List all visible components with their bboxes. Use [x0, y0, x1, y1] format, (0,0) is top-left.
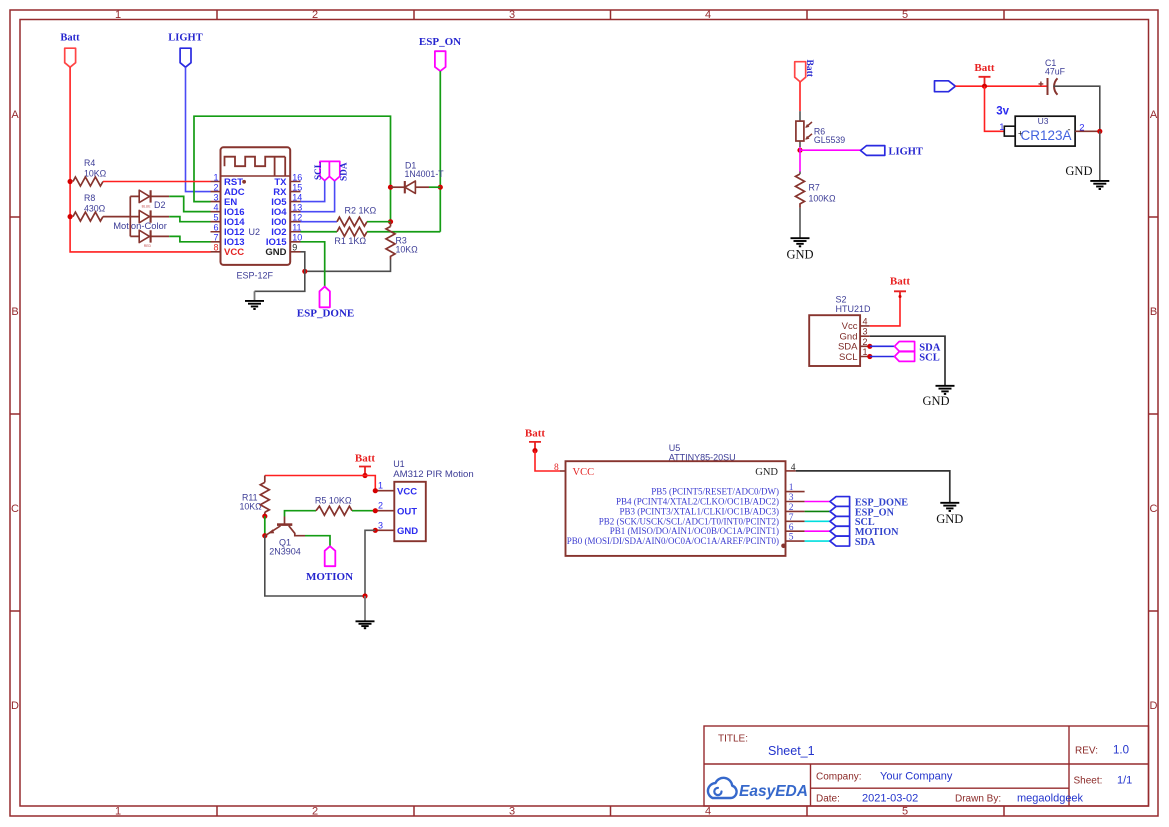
svg-text:VCC: VCC: [224, 247, 244, 258]
svg-text:PB4 (PCINT4/XTAL2/CLKO/OC1B/AD: PB4 (PCINT4/XTAL2/CLKO/OC1B/ADC2): [616, 497, 779, 507]
resistor R8: [73, 193, 106, 221]
svg-text:R7: R7: [809, 183, 820, 193]
svg-text:7: 7: [789, 513, 794, 523]
svg-text:VCC: VCC: [397, 487, 417, 498]
net flag Batt (T symbol at C1): [974, 62, 995, 86]
svg-text:6: 6: [213, 223, 218, 233]
wire D2 mid diode to IO14: [169, 217, 210, 222]
node junction VCC pin: [373, 488, 378, 493]
svg-text:PB5 (PCINT5/RESET/ADC0/DW): PB5 (PCINT5/RESET/ADC0/DW): [651, 487, 779, 497]
svg-text:PB1 (MISO/DO/AIN1/OC0B/OC1A/PC: PB1 (MISO/DO/AIN1/OC0B/OC1A/PCINT1): [610, 526, 779, 536]
svg-text:LIGHT: LIGHT: [168, 33, 202, 44]
svg-text:3: 3: [213, 192, 218, 202]
node junction R8 tap: [68, 214, 73, 219]
wire port to C1: [955, 85, 1047, 87]
wire U3 pin2 stub: [1075, 130, 1100, 132]
resistor R4: [73, 158, 107, 186]
wire D1 to ESP_ON net: [429, 186, 440, 188]
svg-text:BLUE: BLUE: [142, 204, 152, 208]
svg-text:5: 5: [213, 213, 218, 223]
wire R5 to OUT pin: [352, 510, 375, 512]
node junction D1 anode-left: [388, 185, 393, 190]
ground (HTU21D): [922, 386, 954, 408]
sensor U1 AM312 PIR Motion: [375, 459, 473, 541]
svg-text:MOTION: MOTION: [306, 571, 353, 583]
wire junction to LIGHT flag: [800, 147, 861, 150]
ground (under ESP): [245, 291, 264, 309]
svg-text:VCC: VCC: [573, 467, 595, 478]
svg-text:GND: GND: [786, 248, 813, 262]
svg-text:D: D: [11, 700, 19, 712]
resistor R2: [337, 205, 377, 226]
wire PB1 to MOTION flag: [805, 530, 830, 532]
port Batt (top-left): [60, 33, 80, 68]
svg-text:GND: GND: [755, 467, 778, 478]
net flag SCL (at S2): [895, 352, 940, 364]
wire junction to ground: [1099, 131, 1101, 181]
svg-text:2: 2: [789, 503, 794, 513]
wire Gnd to ground: [870, 336, 945, 386]
wire SDA pin to flag: [870, 345, 895, 347]
node junction R11 bottom: [262, 514, 267, 519]
node junction D1 right: [438, 185, 443, 190]
node junction GND run: [302, 269, 307, 274]
svg-text:C: C: [1150, 503, 1158, 515]
svg-text:ESP_ON: ESP_ON: [419, 36, 461, 48]
svg-text:ESP_DONE: ESP_DONE: [297, 308, 354, 320]
svg-text:1.0: 1.0: [1113, 745, 1129, 757]
svg-text:1: 1: [789, 483, 794, 493]
svg-text:1: 1: [863, 347, 868, 357]
svg-text:2: 2: [378, 501, 383, 511]
wire EN loop green: [194, 116, 391, 222]
svg-text:U1: U1: [393, 459, 405, 469]
svg-text:LIGHT: LIGHT: [889, 147, 923, 158]
wire ESP_ON vertical: [439, 71, 441, 232]
wire Vcc to Batt: [870, 297, 900, 326]
svg-text:3: 3: [863, 327, 868, 337]
svg-text:8: 8: [213, 243, 218, 253]
svg-text:4: 4: [705, 9, 711, 21]
svg-text:Company:: Company:: [816, 772, 862, 783]
wire SCL pin to flag: [870, 356, 895, 358]
svg-text:EasyEDA: EasyEDA: [739, 783, 808, 800]
svg-text:Batt: Batt: [804, 60, 814, 78]
svg-text:4: 4: [705, 806, 711, 818]
wire R3 to GND run: [305, 260, 391, 272]
wire R8 to D2: [103, 216, 139, 218]
svg-text:SCL: SCL: [314, 162, 324, 180]
wire SCL to IO5: [301, 181, 325, 202]
svg-text:9: 9: [292, 243, 297, 253]
U2 pin stubs right: [290, 182, 300, 252]
svg-text:U5: U5: [669, 443, 681, 453]
net flag SDA (U5): [830, 536, 876, 548]
svg-text:TITLE:: TITLE:: [718, 734, 748, 745]
svg-text:2N3904: 2N3904: [269, 547, 301, 557]
wire LIGHT to ADC pin2: [186, 67, 211, 191]
svg-text:Batt: Batt: [974, 62, 995, 74]
svg-text:3: 3: [509, 806, 515, 818]
svg-text:PB0 (MOSI/DI/SDA/AIN0/OC0A/OC1: PB0 (MOSI/DI/SDA/AIN0/OC0A/OC1A/AREF/PCI…: [567, 536, 779, 546]
svg-text:1: 1: [115, 806, 121, 818]
net flag ESP_DONE: [297, 287, 354, 320]
svg-text:SCL: SCL: [919, 353, 939, 364]
node junction ground run: [362, 593, 367, 598]
node junction Batt U5: [532, 448, 537, 453]
EasyEDA logo: [708, 778, 808, 800]
svg-text:1: 1: [378, 481, 383, 491]
svg-text:A: A: [11, 109, 19, 121]
U2 pin names left: [224, 177, 245, 258]
svg-text:Date:: Date:: [816, 794, 840, 805]
svg-text:A: A: [1150, 109, 1158, 121]
resistor R7: [796, 172, 837, 208]
node junction GND pin: [373, 528, 378, 533]
svg-text:D: D: [1150, 700, 1158, 712]
svg-text:5: 5: [902, 806, 908, 818]
net flag MOTION (U5): [830, 526, 899, 538]
net flag Batt (at U5): [525, 428, 546, 451]
svg-text:100KΩ: 100KΩ: [809, 193, 837, 203]
svg-text:10KΩ: 10KΩ: [240, 501, 263, 511]
svg-text:2: 2: [863, 337, 868, 347]
wire GND pin4 to ground: [796, 471, 950, 503]
svg-text:PB3 (PCINT3/XTAL1/CLKI/OC1B/AD: PB3 (PCINT3/XTAL1/CLKI/OC1B/ADC3): [619, 506, 779, 516]
svg-text:AM312 PIR Motion: AM312 PIR Motion: [393, 469, 474, 480]
svg-text:4: 4: [213, 203, 218, 213]
svg-text:GND: GND: [1065, 164, 1092, 178]
wire base to R5: [285, 511, 317, 517]
svg-text:2: 2: [213, 182, 218, 192]
svg-text:11: 11: [292, 223, 301, 233]
svg-text:B: B: [1150, 306, 1157, 318]
svg-text:2: 2: [312, 9, 318, 21]
diode D1 1N4001-T: [391, 161, 445, 194]
node junction R4 tap: [68, 179, 73, 184]
wire Batt to VCC pin8: [535, 451, 560, 471]
svg-text:SDA: SDA: [339, 162, 349, 181]
svg-text:GND: GND: [922, 394, 949, 408]
svg-text:Drawn By:: Drawn By:: [955, 794, 1001, 805]
port Batt (rotated, above R6): [795, 60, 814, 82]
svg-text:47uF: 47uF: [1045, 67, 1066, 77]
ground (light divider): [786, 238, 813, 261]
U2 pin stubs left: [211, 182, 221, 252]
wire PB2 to SCL flag: [805, 520, 830, 522]
node junction Batt/C1: [982, 84, 987, 89]
node junction pin2/GND: [1097, 129, 1102, 134]
resistor R3: [386, 222, 418, 260]
battery U3 CR123A: [999, 116, 1084, 146]
svg-text:CR123A: CR123A: [1021, 128, 1072, 143]
svg-text:Sheet_1: Sheet_1: [768, 744, 815, 758]
net flag Batt (at S2): [890, 276, 911, 299]
svg-text:GL5539: GL5539: [814, 135, 845, 145]
svg-text:5: 5: [902, 9, 908, 21]
diode array D2 Motion-Color: [113, 190, 169, 248]
net flag ESP_DONE (U5): [830, 497, 908, 509]
svg-text:PB2 (SCK/USCK/SCL/ADC1/T0/INT0: PB2 (SCK/USCK/SCL/ADC1/T0/INT0/PCINT2): [599, 516, 779, 526]
net flag SDA (at U2): [329, 161, 349, 181]
net flag MOTION: [306, 546, 353, 583]
wire Batt run to R11 and VCC: [265, 476, 376, 491]
svg-text:SCL: SCL: [839, 352, 857, 363]
wire D2 bottom diode to IO13: [169, 236, 210, 241]
svg-text:SDA: SDA: [855, 537, 876, 548]
ground (ATTINY): [936, 503, 963, 526]
wire junction down to U3 pin1 (3v net): [985, 86, 1005, 131]
svg-text:7: 7: [213, 233, 218, 243]
TITLE BLOCK: [704, 726, 1149, 806]
svg-text:3: 3: [509, 9, 515, 21]
node junction emitter: [262, 533, 267, 538]
resistor R11: [240, 476, 270, 517]
node junction SCL pin: [867, 354, 872, 359]
U2 pin numbers right: [292, 172, 302, 252]
svg-text:RED: RED: [144, 244, 152, 248]
net flag SDA (at S2): [895, 342, 941, 354]
svg-text:1/1: 1/1: [1117, 775, 1132, 787]
svg-text:GND: GND: [936, 512, 963, 526]
svg-text:ESP-12F: ESP-12F: [237, 270, 274, 280]
svg-text:R5 10KΩ: R5 10KΩ: [315, 496, 352, 506]
svg-text:3: 3: [789, 493, 794, 503]
mcu U5 ATTINY85-20SU: [554, 443, 805, 556]
net flag SCL (at U2): [314, 161, 330, 180]
node junction R2/R3: [388, 219, 393, 224]
svg-text:Sheet:: Sheet:: [1074, 776, 1103, 787]
svg-text:16: 16: [292, 172, 302, 182]
wire GND pin to ground run: [365, 530, 375, 596]
port (blue, unnamed input): [935, 81, 956, 92]
svg-text:1: 1: [213, 172, 218, 182]
node junction Batt U1: [362, 473, 367, 478]
svg-text:Batt: Batt: [525, 428, 546, 440]
svg-text:1: 1: [115, 9, 121, 21]
wire PB3 to ESP_ON flag: [805, 510, 830, 512]
svg-text:Batt: Batt: [355, 452, 376, 464]
svg-text:15: 15: [292, 182, 302, 192]
ground (battery): [1065, 164, 1109, 189]
wire R1 to ESP_ON vertical: [367, 231, 440, 233]
wire IO0 to R2 (blue): [301, 221, 338, 223]
svg-text:8: 8: [554, 463, 559, 473]
wire R2 to node: [367, 221, 391, 223]
svg-text:1: 1: [999, 122, 1004, 133]
svg-text:3v: 3v: [996, 106, 1009, 118]
svg-text:R8: R8: [84, 193, 95, 203]
wire C1 to GND corner: [1054, 86, 1100, 131]
net flag ESP_ON (U5): [830, 506, 895, 518]
wire R11 to emitter node: [264, 516, 266, 536]
svg-text:R1 1KΩ: R1 1KΩ: [334, 236, 366, 246]
wire U2 GND pin down-left: [255, 252, 305, 291]
net flag SCL (U5): [830, 516, 875, 528]
transistor Q1 2N3904: [265, 517, 305, 557]
svg-text:U2: U2: [249, 227, 261, 237]
wire PB0 to SDA flag: [805, 540, 830, 542]
svg-text:3: 3: [378, 520, 383, 530]
svg-text:5: 5: [789, 533, 794, 543]
U2 pin names right: [265, 177, 287, 258]
node junction OUT pin: [373, 508, 378, 513]
ground (PIR): [356, 596, 375, 628]
U2 pin numbers left: [213, 172, 218, 252]
wire junction down to R7: [799, 150, 801, 171]
node junction LIGHT: [797, 148, 802, 153]
wire R7 to ground: [799, 208, 801, 238]
svg-text:2021-03-02: 2021-03-02: [862, 793, 918, 805]
port LIGHT (top): [168, 33, 202, 68]
resistor R5: [315, 496, 352, 516]
svg-text:D2: D2: [154, 200, 166, 210]
svg-text:Your Company: Your Company: [880, 771, 953, 783]
capacitor C1 47uF: [1039, 58, 1066, 95]
chip U2 ESP-12F body: [221, 147, 291, 280]
svg-text:Batt: Batt: [890, 276, 911, 288]
wire IO15 to ESP_DONE: [301, 242, 325, 287]
wire IO2 to R1 (green): [301, 231, 338, 233]
wire collector to MOTION: [305, 536, 330, 547]
resistor R1: [334, 227, 367, 246]
wire Batt to R6: [799, 82, 801, 111]
photoresistor R6 GL5539: [796, 111, 845, 147]
svg-text:GND: GND: [397, 526, 418, 537]
wire R4 to RST: [103, 181, 211, 183]
svg-text:6: 6: [789, 523, 794, 533]
svg-text:U3: U3: [1038, 116, 1049, 126]
svg-text:megaoldgeek: megaoldgeek: [1017, 793, 1084, 805]
svg-text:OUT: OUT: [397, 507, 417, 518]
wire PB4 to ESP_DONE flag: [805, 501, 830, 503]
net flag LIGHT: [861, 146, 923, 158]
port ESP_ON (top): [419, 36, 461, 71]
svg-text:B: B: [11, 306, 18, 318]
svg-text:4: 4: [863, 316, 868, 326]
svg-text:REV:: REV:: [1075, 746, 1098, 757]
svg-text:R2 1KΩ: R2 1KΩ: [345, 205, 377, 215]
wire SDA to IO4: [301, 181, 335, 212]
wire D2 top diode to IO16: [169, 196, 210, 211]
svg-text:4: 4: [791, 463, 796, 473]
node junction SDA pin: [867, 344, 872, 349]
svg-text:1N4001-T: 1N4001-T: [405, 169, 445, 179]
svg-text:Batt: Batt: [60, 33, 80, 44]
svg-text:2: 2: [312, 806, 318, 818]
wire Batt vertical to VCC: [70, 67, 210, 252]
net flag Batt (at U1): [355, 452, 376, 475]
wire emitter to ground run: [265, 536, 365, 596]
svg-text:C: C: [11, 503, 19, 515]
svg-text:10KΩ: 10KΩ: [396, 245, 419, 255]
svg-text:HTU21D: HTU21D: [836, 304, 872, 314]
sensor S2 HTU21D: [809, 295, 871, 366]
svg-text:GND: GND: [265, 247, 286, 258]
svg-text:R4: R4: [84, 158, 95, 168]
